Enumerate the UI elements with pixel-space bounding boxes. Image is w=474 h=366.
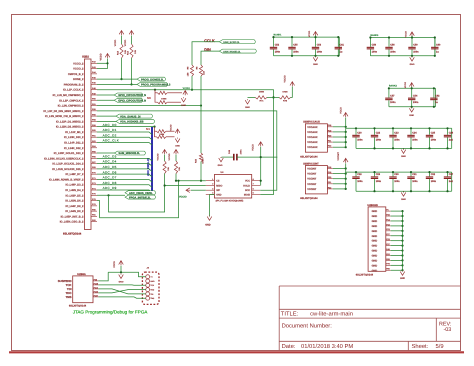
junction: [130, 83, 132, 85]
svg-text:IO_L30N_GCLK0_USERCCLK_2: IO_L30N_GCLK0_USERCCLK_2: [44, 157, 84, 160]
svg-text:TMS: TMS: [65, 295, 71, 299]
junction: [345, 136, 347, 138]
svg-text:1k8: 1k8: [202, 70, 205, 74]
junction: [345, 141, 347, 143]
junction: [401, 215, 403, 217]
wire pin9 DIN run: [97, 105, 201, 107]
junction: [446, 171, 448, 173]
pin U4 HOLD: [252, 185, 261, 187]
svg-text:C24: C24: [412, 132, 417, 135]
wire M1 upper to VCCIO: [166, 130, 175, 132]
svg-text:100n: 100n: [413, 101, 419, 104]
svg-text:2u2: 2u2: [449, 180, 454, 183]
svg-text:3: 3: [212, 187, 213, 190]
svg-text:100n: 100n: [390, 101, 396, 104]
pin J4-1: [146, 275, 150, 279]
wire cap rail: [346, 127, 452, 129]
flag PROG_PROGRAMB/2.3: [137, 82, 168, 86]
pin P71 IO_L48N_RDWR_B_VREF_2: [91, 178, 97, 180]
svg-text:GND: GND: [401, 155, 406, 158]
wire R10 to net: [175, 174, 177, 181]
wire supply pin to rail: [333, 178, 346, 180]
svg-text:IO_L14N_D12_2: IO_L14N_D12_2: [64, 147, 84, 150]
wire pin12 net: [97, 120, 116, 122]
junction: [345, 126, 347, 128]
svg-text:GND: GND: [175, 145, 180, 148]
svg-text:IO_L12N_D2_MISO3_2: IO_L12N_D2_MISO3_2: [56, 126, 84, 129]
supply VCCO at BANK3: [409, 83, 414, 88]
svg-text:IO_L2P_CMPCLK_2: IO_L2P_CMPCLK_2: [59, 99, 84, 102]
resistor M0 upper DNM: [158, 91, 168, 94]
svg-text:5: 5: [253, 192, 254, 195]
svg-text:IO_L65N_CSO_B_2: IO_L65N_CSO_B_2: [60, 221, 84, 224]
svg-text:HOLD: HOLD: [243, 185, 250, 188]
junction: [410, 127, 412, 129]
svg-text:ADC_CBUS_CE/3L: ADC_CBUS_CE/3L: [129, 192, 153, 195]
capacitor C61 1u: [337, 37, 339, 47]
junction: [175, 180, 177, 182]
svg-text:10k: 10k: [167, 166, 170, 170]
wire ADC_D1: [97, 132, 152, 135]
svg-text:VCCIO: VCCIO: [168, 153, 171, 160]
svg-text:M1: M1: [146, 127, 150, 131]
pin P82 IO_L65N_CSO_B_2: [91, 221, 97, 223]
svg-text:GND: GND: [372, 225, 378, 228]
pin P50 IO_L2P_CMPCLK_2: [91, 99, 97, 101]
wire TCK: [99, 284, 146, 286]
wire supply pin to rail: [333, 131, 346, 133]
flag FPGA_INITB flag: [125, 195, 156, 199]
pin P58 IO_L12P_D1_MISO2_2: [91, 120, 97, 122]
svg-text:GND: GND: [372, 245, 378, 248]
svg-text:IO_L31P_GCLK31_D14_2: IO_L31P_GCLK31_D14_2: [52, 163, 84, 166]
svg-text:GND: GND: [245, 106, 250, 109]
svg-text:R6: R6: [196, 66, 199, 70]
wire GND pin to rail: [391, 215, 403, 217]
junction: [428, 127, 430, 129]
svg-text:U2B5VCCINT: U2B5VCCINT: [303, 162, 319, 165]
wire pin8 net: [97, 99, 114, 101]
junction: [345, 173, 347, 175]
svg-text:VCCAUX: VCCAUX: [307, 141, 318, 144]
svg-text:8: 8: [253, 178, 254, 181]
wire R6 to pin9 DIN wire: [200, 76, 202, 106]
resistor R13 10k: [121, 36, 123, 45]
wire pin5 PROGRAM net: [97, 83, 137, 85]
wire GND pin to rail: [391, 264, 403, 266]
pin P56 IO_L3N_MOSI_CSI_B_MISO0_2: [91, 115, 97, 117]
wire R5 to pin6 CCLK wire: [191, 76, 193, 90]
capacitor C27 2u2: [447, 172, 449, 176]
svg-text:ADC_D9: ADC_D9: [103, 186, 117, 190]
junction: [345, 183, 347, 185]
ground at JTAG: [119, 274, 124, 279]
svg-text:VCCO: VCCO: [100, 53, 103, 60]
svg-text:GND: GND: [372, 264, 378, 267]
svg-text:100n: 100n: [431, 180, 437, 183]
wire pin9 down to R22: [200, 106, 202, 153]
pin P51 IO_L2N_CMPMOSI_2: [91, 105, 97, 107]
svg-text:DNM: DNM: [259, 91, 264, 94]
svg-text:GND: GND: [150, 280, 155, 283]
junction: [388, 36, 390, 38]
wire GND pin to rail: [391, 250, 403, 252]
junction: [272, 36, 274, 38]
capacitor C31 100n: [410, 172, 412, 176]
pin P43 VCCO_2: [91, 68, 97, 70]
svg-text:P38: P38: [94, 278, 97, 281]
junction: [428, 171, 430, 173]
wire JTAG top link: [120, 266, 122, 273]
ground at BANK3: [411, 107, 413, 109]
pin P60 IO_L13P_M1_2: [91, 131, 97, 133]
pin J4-2: [146, 279, 150, 283]
svg-text:100n: 100n: [390, 50, 396, 53]
junction: [337, 36, 339, 38]
node BANK3 rail: [389, 87, 436, 89]
capacitor C26 2u2: [447, 128, 449, 135]
svg-text:GND: GND: [400, 277, 405, 280]
wire R79 to VCCIO: [291, 87, 293, 98]
svg-text:2u2: 2u2: [449, 138, 454, 141]
pin P78 IO_L62N_D6_2: [91, 200, 97, 202]
svg-text:VCCIO: VCCIO: [179, 195, 187, 198]
svg-text:VGA_SANUS_DI: VGA_SANUS_DI: [120, 115, 141, 118]
junction: [401, 225, 403, 227]
svg-text:IO_L13P_M1_2: IO_L13P_M1_2: [65, 131, 84, 134]
junction: [401, 210, 403, 212]
svg-text:P107: P107: [94, 294, 98, 297]
svg-text:GND: GND: [372, 259, 378, 262]
svg-text:ADC_D8: ADC_D8: [103, 181, 117, 185]
svg-text:VCCAUX: VCCAUX: [307, 131, 318, 134]
svg-text:GND: GND: [372, 215, 378, 218]
svg-text:IO_L1P_CCLK_2: IO_L1P_CCLK_2: [63, 89, 84, 92]
svg-text:Sheet:: Sheet:: [412, 343, 429, 350]
wire R13 to pin: [121, 58, 123, 79]
svg-text:100n: 100n: [412, 180, 418, 183]
pin U4 CS: [206, 180, 215, 182]
junction: [401, 245, 403, 247]
svg-text:IO_L64P_D8_2: IO_L64P_D8_2: [65, 205, 84, 208]
junction: [401, 269, 403, 271]
wire GND pin to rail: [391, 240, 403, 242]
svg-text:GND: GND: [372, 250, 378, 253]
svg-text:VCCO: VCCO: [113, 261, 116, 268]
svg-text:100n: 100n: [372, 50, 378, 53]
supply VCCIO arrow M1: [175, 129, 180, 134]
wire ADC_D6: [97, 174, 152, 177]
ground at M0: [181, 97, 186, 102]
junction: [401, 230, 403, 232]
capacitor C48 100n: [222, 156, 234, 158]
junction: [200, 180, 202, 182]
svg-text:M0: M0: [147, 96, 151, 100]
wire supply pin to rail: [333, 126, 346, 128]
svg-text:TDO: TDO: [150, 289, 154, 292]
svg-text:C48: C48: [228, 149, 231, 154]
supply VCCO arrow: [343, 113, 348, 118]
wire SPI SCK vertical: [259, 189, 261, 191]
svg-text:U4: U4: [221, 171, 225, 174]
svg-text:VCCINT: VCCINT: [307, 183, 317, 186]
svg-text:VCCIO: VCCIO: [183, 87, 190, 90]
svg-text:DNM: DNM: [283, 91, 288, 94]
wire M0 upper to VCCIO: [167, 92, 182, 94]
svg-text:GND: GND: [372, 220, 378, 223]
svg-text:100n: 100n: [412, 138, 418, 141]
ground at U2B5VCCAUX caps: [403, 148, 405, 149]
svg-text:U2B2: U2B2: [82, 56, 89, 59]
resistor R71 DNM: [255, 96, 267, 99]
capacitor C57 100n: [388, 88, 390, 97]
junction: [345, 178, 347, 180]
svg-text:VCCIO: VCCIO: [156, 153, 159, 160]
wire M1 stub: [155, 127, 157, 137]
svg-text:C30: C30: [394, 173, 399, 176]
svg-text:VCCO_2: VCCO_2: [73, 68, 84, 71]
svg-text:2: 2: [212, 183, 213, 186]
svg-text:GND: GND: [372, 269, 378, 272]
wire ADC_D7: [97, 179, 152, 182]
flag GPIO_HS1/DOUT: [114, 93, 143, 97]
svg-text:IO_L64N_D9_2: IO_L64N_D9_2: [65, 210, 84, 213]
pin P44 CMPCS_B_2: [91, 73, 97, 75]
svg-text:C61: C61: [340, 44, 345, 47]
svg-text:100n: 100n: [357, 138, 363, 141]
svg-text:MOSI: MOSI: [244, 194, 250, 197]
wire GND pin to rail: [391, 230, 403, 232]
pin P38 SUSPEND: [93, 280, 99, 282]
svg-text:GND: GND: [218, 164, 223, 167]
wire VCCINT rail: [345, 163, 347, 189]
svg-text:1u: 1u: [340, 50, 343, 53]
svg-text:C20: C20: [357, 132, 362, 135]
resistor R9 10k: [164, 155, 166, 162]
junction M1: [153, 126, 155, 128]
svg-text:6SLX9TQG144: 6SLX9TQG144: [63, 233, 82, 236]
wire M0 lower to GND: [167, 101, 181, 103]
pin P49 IO_L1N_M0_CMPMISO_2: [91, 94, 97, 96]
svg-text:10k: 10k: [178, 166, 181, 170]
junction: [373, 127, 375, 129]
flag SAM_MISO0/2.3L: [114, 151, 145, 155]
svg-text:IO_L49P_D3_2: IO_L49P_D3_2: [65, 184, 84, 187]
svg-text:1u: 1u: [435, 101, 438, 104]
resistor M1 upper DNM: [157, 130, 167, 133]
svg-text:VCCIO: VCCIO: [169, 124, 172, 131]
svg-text:VCCINT: VCCINT: [307, 178, 317, 181]
junction: [355, 171, 357, 173]
pin P70 IO_L48P_D7_2: [91, 173, 97, 175]
wire ADC_CLK: [97, 143, 152, 146]
capacitor C24 100n: [410, 128, 412, 135]
svg-text:C54: C54: [413, 94, 418, 97]
svg-text:FPGA_INITB/5.3L: FPGA_INITB/5.3L: [129, 196, 151, 199]
junction: [401, 259, 403, 261]
wire U4 GND: [210, 194, 215, 196]
pin J4-3: [146, 283, 150, 287]
svg-text:CMPCS_B_2: CMPCS_B_2: [68, 73, 84, 76]
svg-text:BANK0: BANK0: [370, 34, 379, 37]
resistor R12 10k: [131, 36, 133, 45]
svg-text:TDI: TDI: [150, 293, 153, 296]
svg-text:VCCO: VCCO: [340, 107, 343, 114]
junction: [314, 36, 316, 38]
svg-text:10k: 10k: [134, 49, 137, 53]
junction: [401, 220, 403, 222]
capacitor C32 100n: [429, 172, 431, 176]
pin P73 IO_L49P_D3_2: [91, 184, 97, 186]
svg-text:GND: GND: [372, 210, 378, 213]
flag PROG_DONE/2.3L: [137, 77, 166, 81]
junction: [107, 194, 109, 196]
svg-text:100n: 100n: [394, 138, 400, 141]
junction: [411, 36, 413, 38]
svg-text:IO_L62P_D5_2: IO_L62P_D5_2: [65, 194, 84, 197]
svg-text:5/9: 5/9: [436, 343, 444, 350]
svg-text:GND: GND: [372, 254, 378, 257]
pin P109 TCK: [93, 284, 99, 286]
capacitor C22 100n: [374, 128, 376, 135]
svg-text:C29: C29: [376, 173, 381, 176]
capacitor C53 100n: [315, 37, 317, 47]
node BANK0 rail: [370, 37, 435, 39]
svg-text:GND: GND: [409, 114, 414, 117]
junction: [401, 235, 403, 237]
svg-text:IO_L1N_M0_CMPMISO_2: IO_L1N_M0_CMPMISO_2: [53, 94, 84, 97]
svg-text:IO_L48P_D7_2: IO_L48P_D7_2: [65, 173, 84, 176]
junction: [401, 254, 403, 256]
junction: [410, 171, 412, 173]
resistor R6 1k8: [199, 65, 202, 76]
svg-text:ADC_CLK: ADC_CLK: [103, 139, 120, 143]
wire VCCO to pins 1-2: [107, 59, 109, 69]
pin P61 IO_L13N_D10_2: [91, 136, 97, 138]
capacitor C23 100n: [392, 128, 394, 135]
wire GND pin to rail: [391, 254, 403, 256]
svg-text:100n: 100n: [413, 50, 419, 53]
wire GND rail: [402, 211, 404, 271]
svg-text:C53: C53: [317, 44, 322, 47]
junction: [120, 271, 122, 273]
svg-text:GPIO_CIPOOUTDIP_N: GPIO_CIPOOUTDIP_N: [118, 99, 146, 102]
capacitor C18 100n: [355, 172, 357, 176]
pin P74 IO_L49N_D4_2: [91, 189, 97, 191]
wire R9 to net: [164, 174, 166, 186]
svg-text:cw-lite-arm-main: cw-lite-arm-main: [310, 311, 353, 318]
svg-text:IO_L13N_D10_2: IO_L13N_D10_2: [64, 136, 84, 139]
wire VCCO rail: [345, 118, 347, 148]
svg-text:C59: C59: [413, 44, 418, 47]
pin U4 SCK: [252, 189, 261, 191]
wire pin27 net CS loop: [97, 181, 179, 218]
wire cap rail: [346, 171, 452, 173]
junction: [260, 180, 262, 182]
capacitor C20 100n: [355, 128, 357, 135]
pin J4-6: [146, 296, 150, 300]
svg-text:IO_L49N_D4_2: IO_L49N_D4_2: [65, 189, 84, 192]
pin P75 IO_L62P_D5_2: [91, 194, 97, 196]
wire pin26 net: [97, 194, 125, 196]
junction: [345, 188, 347, 190]
svg-text:VCCO: VCCO: [308, 30, 311, 37]
svg-text:GND: GND: [410, 63, 415, 66]
wire supply pin to rail: [333, 146, 346, 148]
svg-text:100n: 100n: [275, 50, 281, 53]
svg-text:R22: R22: [195, 158, 198, 163]
pin P66 IO_L30N_GCLK0_USERCCLK_2: [91, 157, 97, 159]
wire R12 to pin: [131, 58, 133, 84]
svg-text:P110: P110: [94, 286, 98, 289]
ground at U2BGND: [400, 271, 405, 276]
svg-text:ADC_D5: ADC_D5: [103, 165, 117, 169]
wire GND pin to rail: [391, 259, 403, 261]
svg-text:C26: C26: [449, 132, 454, 135]
svg-text:IO_L31N_GCLK30_D15_2: IO_L31N_GCLK30_D15_2: [52, 168, 84, 171]
capacitor C54 100n: [411, 88, 413, 97]
wire pin7 net: [97, 94, 114, 96]
svg-text:ADC_D6: ADC_D6: [103, 170, 117, 174]
svg-text:1k8: 1k8: [187, 72, 190, 76]
svg-text:TITLE:: TITLE:: [281, 312, 299, 318]
svg-text:DNM: DNM: [202, 158, 205, 163]
ground at U2B5VCCINT caps: [403, 191, 405, 192]
svg-text:U2B5VCCAUX: U2B5VCCAUX: [303, 121, 320, 124]
svg-text:-03: -03: [444, 327, 452, 333]
wire R71 to node: [267, 96, 279, 98]
capacitor C29 100n: [374, 172, 376, 176]
capacitor C55 100n: [291, 37, 293, 47]
svg-text:C31: C31: [412, 173, 417, 176]
svg-text:C23: C23: [394, 132, 399, 135]
svg-text:IO_L48N_RDWR_B_VREF_2: IO_L48N_RDWR_B_VREF_2: [49, 178, 84, 181]
svg-text:01/01/2018 3:40 PM: 01/01/2018 3:40 PM: [301, 343, 353, 350]
capacitor C52 100n: [273, 37, 275, 47]
ground at BANK1: [315, 56, 317, 58]
svg-text:VCCINT: VCCINT: [307, 168, 317, 171]
pin P55 IO_L3P_D0_DIN_MISO_MISO1_2: [91, 110, 97, 112]
svg-text:R71: R71: [259, 100, 264, 103]
svg-text:IO_L12P_D1_MISO2_2: IO_L12P_D1_MISO2_2: [56, 120, 84, 123]
svg-text:6SLX9TQG144: 6SLX9TQG144: [300, 197, 318, 200]
svg-text:GND: GND: [205, 223, 211, 226]
svg-text:SAM_MISO0/2.3L: SAM_MISO0/2.3L: [118, 152, 140, 155]
junction: [392, 171, 394, 173]
wire CCLK net: [192, 42, 219, 65]
transistor U4 SPI flash: [214, 175, 251, 199]
svg-text:ADC_D4: ADC_D4: [103, 160, 117, 164]
junction: [401, 249, 403, 251]
svg-text:100n: 100n: [394, 180, 400, 183]
junction: [345, 167, 347, 169]
wire TMS: [99, 297, 146, 298]
wire supply pin to rail: [333, 141, 346, 143]
node BANK1 rail: [274, 36, 340, 38]
svg-text:IO_L30P_GCLK1_D13_2: IO_L30P_GCLK1_D13_2: [54, 152, 84, 155]
wire pin11 net: [97, 115, 116, 117]
pin P69 IO_L31N_GCLK30_D15_2: [91, 168, 97, 170]
svg-text:IO_L62N_D6_2: IO_L62N_D6_2: [65, 200, 84, 203]
pin P46 PROGRAM_B_2: [91, 83, 97, 85]
resistor R79 DNM: [279, 96, 291, 99]
svg-text:C60: C60: [436, 44, 441, 47]
svg-text:R13: R13: [116, 50, 119, 55]
wire M1 lower to GND: [166, 136, 175, 138]
svg-text:VCCINT: VCCINT: [337, 151, 340, 160]
svg-text:VGA_HSDNXB_EB: VGA_HSDNXB_EB: [120, 121, 144, 124]
ground at BANK0: [411, 56, 413, 58]
